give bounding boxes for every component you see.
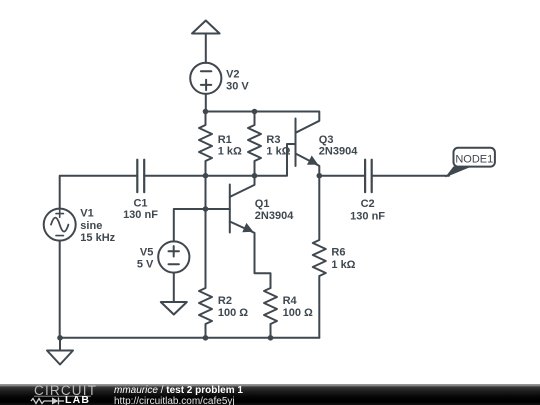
svg-text:2N3904: 2N3904	[319, 145, 358, 157]
svg-text:NODE1: NODE1	[455, 153, 493, 165]
svg-text:Q3: Q3	[319, 134, 334, 146]
svg-text:15 kHz: 15 kHz	[80, 232, 115, 244]
svg-text:V2: V2	[226, 69, 239, 81]
svg-text:1 kΩ: 1 kΩ	[218, 146, 242, 158]
svg-text:R4: R4	[283, 295, 298, 307]
svg-text:C1: C1	[133, 198, 147, 210]
svg-text:1 kΩ: 1 kΩ	[266, 146, 290, 158]
svg-text:sine: sine	[80, 220, 102, 232]
svg-text:100 Ω: 100 Ω	[218, 307, 248, 319]
svg-text:2N3904: 2N3904	[255, 210, 294, 222]
svg-text:130 nF: 130 nF	[350, 211, 385, 223]
svg-text:1 kΩ: 1 kΩ	[331, 259, 355, 271]
svg-text:Q1: Q1	[255, 198, 270, 210]
svg-text:R3: R3	[266, 134, 280, 146]
svg-text:5 V: 5 V	[137, 259, 154, 271]
svg-text:R2: R2	[218, 295, 232, 307]
svg-text:R6: R6	[331, 247, 345, 259]
svg-text:V5: V5	[140, 247, 153, 259]
svg-text:100 Ω: 100 Ω	[283, 307, 313, 319]
svg-text:30 V: 30 V	[226, 80, 249, 92]
svg-text:C2: C2	[361, 198, 375, 210]
svg-text:V1: V1	[80, 207, 93, 219]
svg-text:R1: R1	[218, 134, 232, 146]
svg-text:130 nF: 130 nF	[123, 209, 158, 221]
